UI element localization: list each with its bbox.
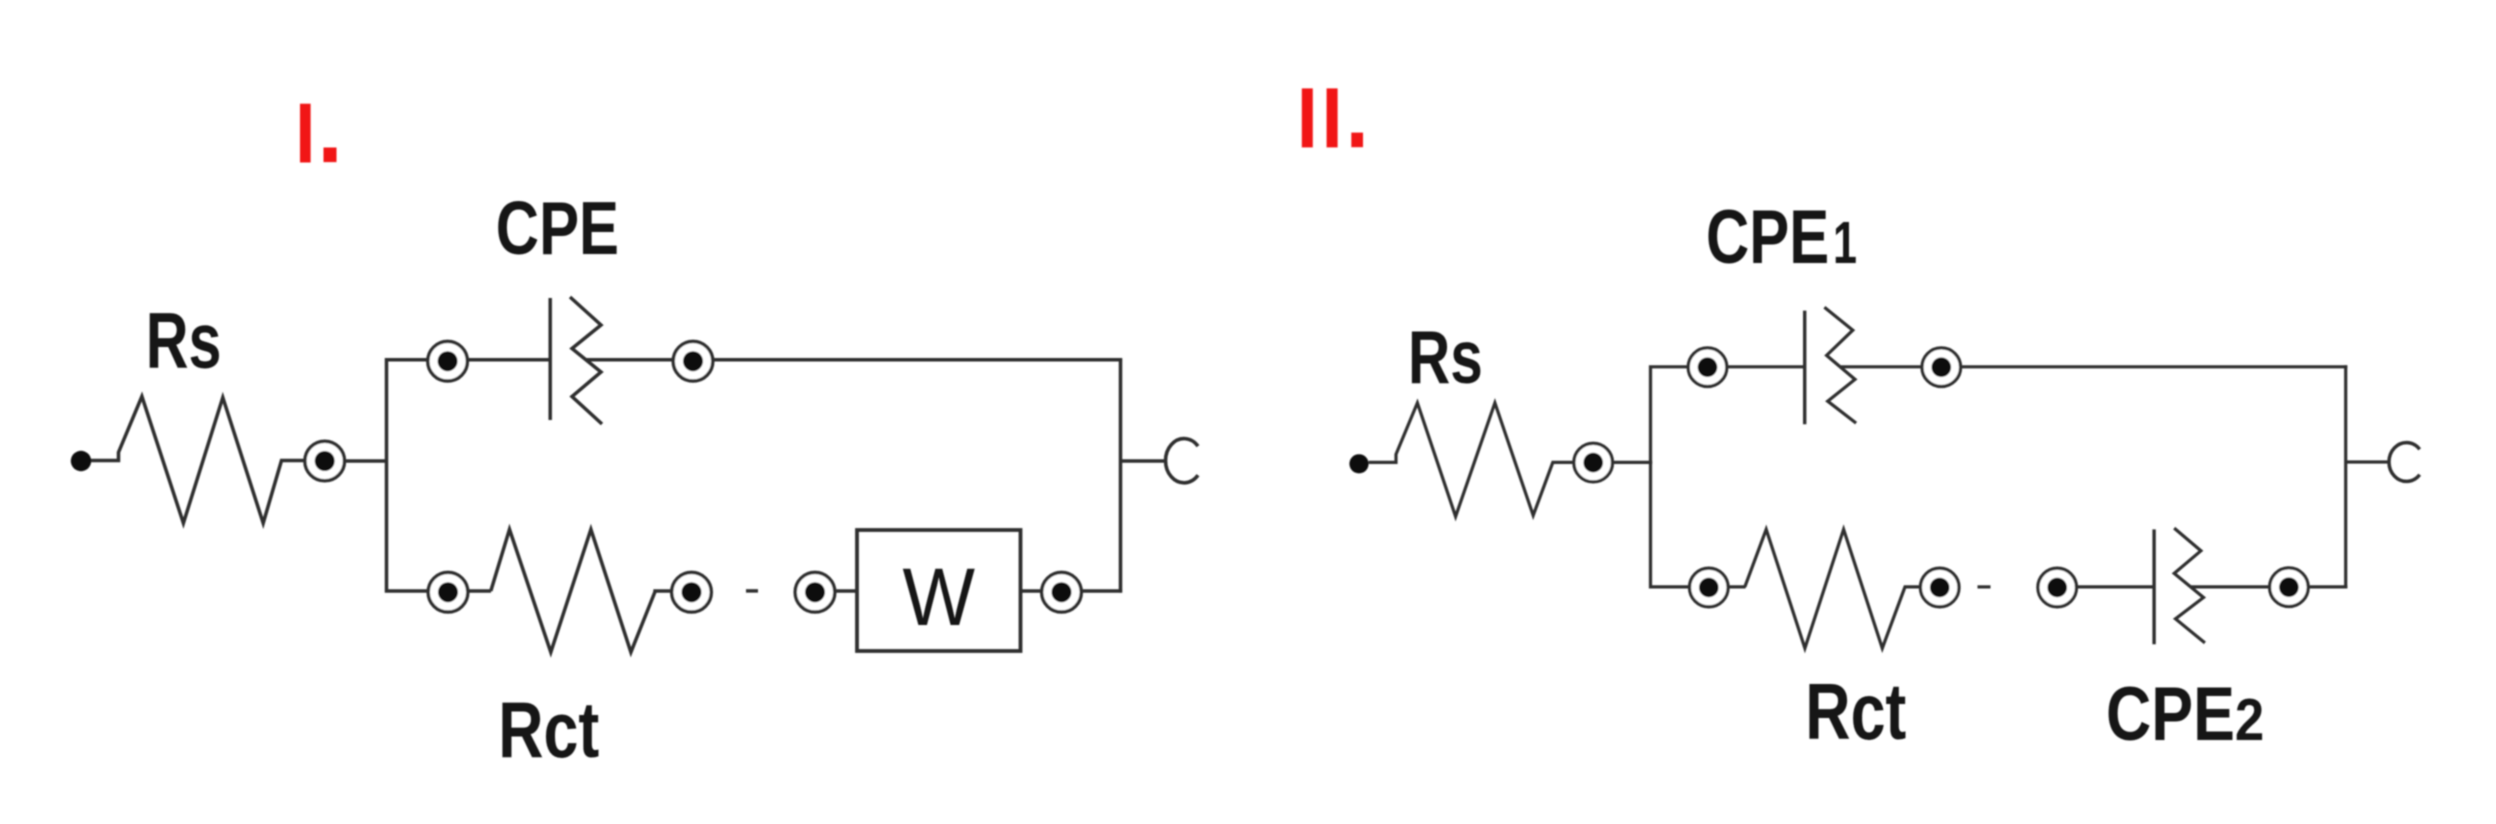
wire: node N6 to W box bbox=[835, 589, 859, 593]
wire: stub to C terminal (circuit I) bbox=[1121, 459, 1167, 463]
resistor Rs zigzag with leads (circuit I) bbox=[91, 396, 304, 523]
svg-text:Rs: Rs bbox=[1408, 315, 1483, 399]
node M4 bottom-left (circuit II) bbox=[1690, 568, 1729, 607]
CPE2 zigzag (circuit II) bbox=[2174, 528, 2205, 643]
wire: CPE to node N3 bbox=[587, 358, 675, 362]
CPE1 zigzag (circuit II) bbox=[1824, 307, 1856, 423]
CPE1 plate (circuit II) bbox=[1803, 311, 1806, 425]
terminal dot (input, circuit I) bbox=[71, 451, 91, 471]
C terminal (open connector, circuit II) bbox=[2389, 443, 2420, 482]
resistor Rct zigzag (circuit II) bbox=[1745, 529, 1921, 648]
wire: right vertical (circuit I) bbox=[1119, 358, 1123, 592]
wire fragment (dash) between M5 and M6 (circuit II) bbox=[1978, 585, 1991, 588]
wire: node N7 to right vertical (circuit I) bbox=[1081, 589, 1122, 593]
wire: CPE2 to node M7 bbox=[2191, 585, 2271, 588]
C terminal (open connector, circuit I) bbox=[1166, 439, 1198, 483]
wire: node M4 to Rct (circuit II) bbox=[1728, 585, 1746, 588]
wire: node N2 to CPE plate bbox=[467, 358, 549, 362]
node N2 top-left (circuit I) bbox=[428, 341, 468, 381]
wire: node M6 to CPE2 plate bbox=[2076, 585, 2152, 588]
wire fragment (dash) between N5 and N6 bbox=[746, 589, 758, 593]
svg-text:Rct: Rct bbox=[498, 685, 599, 774]
CPE plate (circuit I) bbox=[548, 298, 552, 420]
Warburg element box W (circuit I) bbox=[857, 530, 1021, 651]
wire: node N1 to branch point bbox=[344, 459, 388, 463]
wire: left branch split (vertical with corners, circuit II) bbox=[1651, 367, 1691, 587]
wire: top branch long run to the right (circuit II) bbox=[1960, 365, 2347, 368]
node N7 after W box (circuit I) bbox=[1042, 572, 1082, 612]
CPE2 plate (circuit II) bbox=[2152, 529, 2155, 644]
svg-text:1: 1 bbox=[1833, 210, 1857, 276]
CPE zigzag (circuit I) bbox=[570, 297, 602, 424]
wire: node M2 to CPE1 plate bbox=[1727, 365, 1804, 368]
node N3 top-right of CPE (circuit I) bbox=[673, 341, 713, 381]
wire: node M1 to branch point (circuit II) bbox=[1612, 461, 1652, 464]
node N4 bottom-left (circuit I) bbox=[428, 572, 468, 612]
label I. (red) bbox=[300, 104, 337, 163]
wire: node N4 to Rct bbox=[468, 589, 492, 593]
node M3 top-right of CPE1 (circuit II) bbox=[1922, 348, 1961, 387]
svg-text:Rs: Rs bbox=[146, 296, 222, 385]
node N6 before W box (circuit I) bbox=[795, 572, 835, 612]
wire: left branch split (vertical with corners, circuit I) bbox=[387, 360, 429, 591]
wire: node M7 to right vertical (circuit II) bbox=[2308, 585, 2347, 588]
label II. (red) bbox=[1302, 88, 1363, 147]
node M6 before CPE2 (circuit II) bbox=[2038, 568, 2077, 607]
wire: CPE1 to node M3 bbox=[1841, 365, 1923, 368]
svg-text:2: 2 bbox=[2235, 687, 2264, 753]
node M2 top-left (circuit II) bbox=[1688, 348, 1727, 387]
svg-text:CPE: CPE bbox=[1706, 195, 1829, 280]
svg-text:W: W bbox=[903, 552, 976, 643]
resistor Rct zigzag (circuit I) bbox=[491, 529, 672, 652]
wire: top branch long run to the right (circuit I) bbox=[712, 358, 1122, 362]
node M7 after CPE2 (circuit II) bbox=[2270, 568, 2309, 607]
node N5 after Rct (circuit I) bbox=[672, 572, 712, 612]
wire: stub to C terminal (circuit II) bbox=[2346, 460, 2390, 463]
node N1 after Rs (circuit I) bbox=[305, 441, 345, 481]
wire: W box to node N7 bbox=[1021, 589, 1043, 593]
svg-text:Rct: Rct bbox=[1805, 667, 1906, 756]
terminal dot (input, circuit II) bbox=[1349, 454, 1368, 473]
wire: right vertical (circuit II) bbox=[2344, 365, 2347, 588]
node M5 after Rct (circuit II) bbox=[1920, 568, 1959, 607]
svg-text:CPE: CPE bbox=[2106, 672, 2235, 757]
node M1 after Rs (circuit II) bbox=[1574, 443, 1613, 482]
svg-text:CPE: CPE bbox=[496, 186, 619, 270]
resistor Rs zigzag with leads (circuit II) bbox=[1369, 403, 1575, 517]
